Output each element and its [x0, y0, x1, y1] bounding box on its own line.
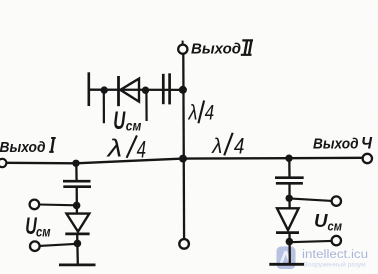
node: main line / right branch — [285, 155, 292, 162]
node: top branch / centre stub — [179, 86, 187, 94]
svg-text:U: U — [113, 107, 126, 135]
bias wire to terminal — [289, 241, 332, 242]
node: left bias tap upper — [73, 202, 81, 210]
node A (top branch, bias tap 1) — [101, 86, 108, 93]
wire down from main line — [288, 158, 291, 178]
diode VD2 (shunt, pointing down, hollow) — [65, 214, 89, 234]
wire through diode — [288, 233, 291, 264]
svg-text:4: 4 — [234, 134, 245, 159]
terminal: left bias lower — [30, 241, 40, 251]
svg-text:см: см — [126, 117, 142, 133]
bias wire to terminal — [39, 203, 77, 206]
open-end bar of top branch — [88, 72, 91, 106]
node: right bias tap lower — [286, 238, 294, 246]
svg-text:см: см — [36, 225, 51, 240]
terminal: right bias upper — [332, 196, 341, 205]
wire from cap to diode — [76, 187, 79, 213]
svg-text:Выход: Выход — [313, 136, 359, 153]
svg-text:λ: λ — [211, 135, 222, 158]
terminal: right bias lower — [332, 236, 341, 245]
bias wire to terminal — [39, 244, 77, 246]
wire from cap to diode — [288, 183, 290, 207]
svg-text:λ: λ — [105, 134, 122, 162]
svg-text:Ч: Ч — [361, 135, 372, 153]
label Uсм (left branch) — [25, 213, 50, 240]
bias drop wire 2 — [145, 90, 147, 121]
label λ/4 (centre stub) — [188, 101, 214, 125]
svg-text:Выход: Выход — [0, 139, 46, 156]
diode VD1 (series, pointing left) — [119, 76, 140, 106]
top branch wire — [89, 89, 183, 92]
node: main line / left branch — [72, 160, 79, 167]
main horizontal wire — [6, 158, 363, 164]
svg-text:Выход: Выход — [191, 41, 241, 58]
capacitor C2 (left branch) — [63, 181, 91, 187]
capacitor C3 (right branch) — [275, 178, 304, 184]
short-circuit bar (left stub end) — [59, 263, 96, 266]
node B (top branch, bias tap 2) — [142, 87, 149, 94]
terminal: bottom of centre stub — [179, 239, 189, 249]
label λ/4 (left section of main line) — [105, 134, 146, 163]
terminal: left bias upper — [30, 200, 40, 210]
label λ/4 (right section of main line) — [211, 134, 244, 159]
label Uсм (top branch) — [113, 107, 142, 135]
node: right bias tap upper — [286, 195, 293, 202]
terminal: Выход II — [178, 45, 187, 54]
wire through diode — [76, 234, 79, 264]
watermark logo intellect.icu — [277, 247, 296, 270]
short-circuit bar (right stub end) — [269, 263, 304, 266]
wire down from main line — [75, 163, 78, 181]
terminal: Выход Ч (right) — [363, 154, 372, 163]
bias wire to terminal — [289, 198, 332, 201]
svg-text:U: U — [314, 210, 328, 231]
label Uсм (right branch) — [314, 210, 342, 234]
centre vertical wire (λ/4 stub to Выход II) — [182, 54, 185, 240]
svg-text:λ: λ — [188, 101, 198, 125]
node: left bias tap lower — [74, 240, 82, 248]
node: main line / centre branch — [179, 155, 187, 163]
svg-text:4: 4 — [137, 137, 146, 164]
svg-text:см: см — [328, 219, 343, 234]
terminal: Выход I — [0, 159, 6, 167]
capacitor C1 (series blocking cap, top branch) — [163, 73, 169, 104]
diode VD3 (shunt, pointing down, hollow) — [276, 208, 299, 232]
svg-text:4: 4 — [205, 102, 215, 125]
bias drop wire 1 — [103, 90, 105, 123]
